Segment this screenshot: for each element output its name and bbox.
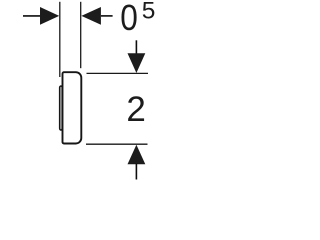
extension line top (plate top edge): [87, 72, 149, 74]
extension line bottom (plate bottom edge): [86, 143, 148, 145]
plate frame strip (tab on wall side): [60, 86, 63, 130]
arrowhead pointing right: [40, 7, 59, 25]
dimension line lower segment: [135, 164, 137, 180]
dimension line upper segment: [135, 40, 137, 54]
arrowhead pointing left: [81, 7, 101, 25]
extension line left (strip outer face): [59, 2, 61, 77]
svg-text:0: 0: [120, 0, 138, 38]
svg-text:2: 2: [126, 90, 145, 129]
extension line right (plate front face): [80, 2, 82, 68]
dimension tail left: [23, 15, 41, 17]
plate body profile: [63, 72, 82, 143]
svg-text:5: 5: [142, 0, 156, 25]
arrowhead pointing up: [128, 145, 146, 165]
arrowhead pointing down: [128, 53, 146, 73]
dimension tail right: [101, 15, 113, 17]
